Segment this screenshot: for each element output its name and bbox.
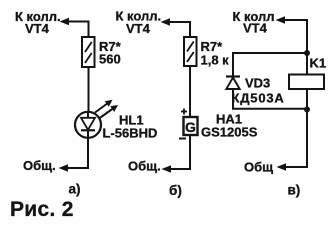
resistor R7 (circuit b) (184, 37, 197, 66)
value label R7* 560 (99, 39, 122, 67)
wire diode to bottom branch (233, 89, 307, 109)
label VD3 КД503А (232, 76, 285, 106)
LED emission arrows (95, 100, 118, 119)
common terminal arrow (circuit v) (277, 163, 287, 170)
svg-text:1,8 к: 1,8 к (201, 53, 230, 68)
wire bottom node to common (circuit v) (280, 110, 307, 168)
svg-text:G: G (185, 119, 196, 135)
diode VD3 (226, 77, 240, 90)
junction node top (304, 50, 310, 56)
common terminal arrow (circuit b) (162, 165, 172, 172)
wire relay to bottom node (306, 89, 308, 110)
svg-text:VT4: VT4 (126, 21, 151, 36)
common terminal arrow (circuit a) (59, 164, 69, 171)
svg-text:КД503А: КД503А (232, 91, 285, 106)
resistor R7 (circuit a) (82, 37, 95, 67)
value label R7* 1,8 к (201, 39, 230, 68)
svg-text:560: 560 (99, 52, 121, 67)
arrow to collector VT4 (circuit a) (60, 18, 89, 25)
svg-text:GS1205S: GS1205S (201, 125, 258, 140)
label HL1 L-56BHD (103, 113, 158, 141)
arrow to collector VT4 (circuit v) (276, 16, 308, 23)
wire buzzer to common (circuit b) (165, 135, 190, 169)
buzzer HA1 (box with G) (184, 117, 198, 135)
terminal label "К колл. VT4" (circuit a) (15, 9, 61, 36)
svg-text:Общ.: Общ. (128, 159, 161, 174)
svg-text:L-56BHD: L-56BHD (103, 126, 158, 141)
wire node to relay coil (306, 53, 308, 75)
svg-text:б): б) (169, 183, 182, 198)
LED HL1 (75, 112, 101, 138)
terminal label "К колл VT4" (circuit v) (233, 9, 275, 36)
label HA1 GS1205S (201, 112, 258, 140)
svg-text:Общ: Общ (244, 160, 273, 175)
terminal label "К колл. VT4" (circuit b) (116, 9, 162, 37)
svg-text:VD3: VD3 (245, 76, 270, 91)
svg-text:Общ.: Общ. (23, 158, 56, 173)
wire node to diode branch (233, 53, 307, 76)
junction node bottom (304, 107, 310, 113)
wire down to node A (circuit v) (306, 19, 308, 53)
wire from arrow down to R7 (circuit a) (88, 21, 90, 38)
wire LED to common (circuit a) (62, 138, 88, 168)
svg-text:VT4: VT4 (243, 21, 268, 36)
svg-text:а): а) (69, 182, 81, 197)
plus polarity mark (181, 109, 187, 115)
relay coil K1 (289, 75, 324, 90)
wire R7 to buzzer (circuit b) (189, 66, 191, 117)
svg-text:Рис. 2: Рис. 2 (10, 198, 74, 221)
minus polarity mark (179, 138, 186, 140)
wire from arrow down to R7 (circuit b) (189, 21, 191, 38)
svg-text:VT4: VT4 (25, 21, 50, 36)
svg-text:в): в) (288, 183, 301, 198)
svg-text:K1: K1 (310, 56, 327, 71)
wire R7 to LED (circuit a) (88, 67, 90, 112)
arrow to collector VT4 (circuit b) (161, 18, 191, 25)
